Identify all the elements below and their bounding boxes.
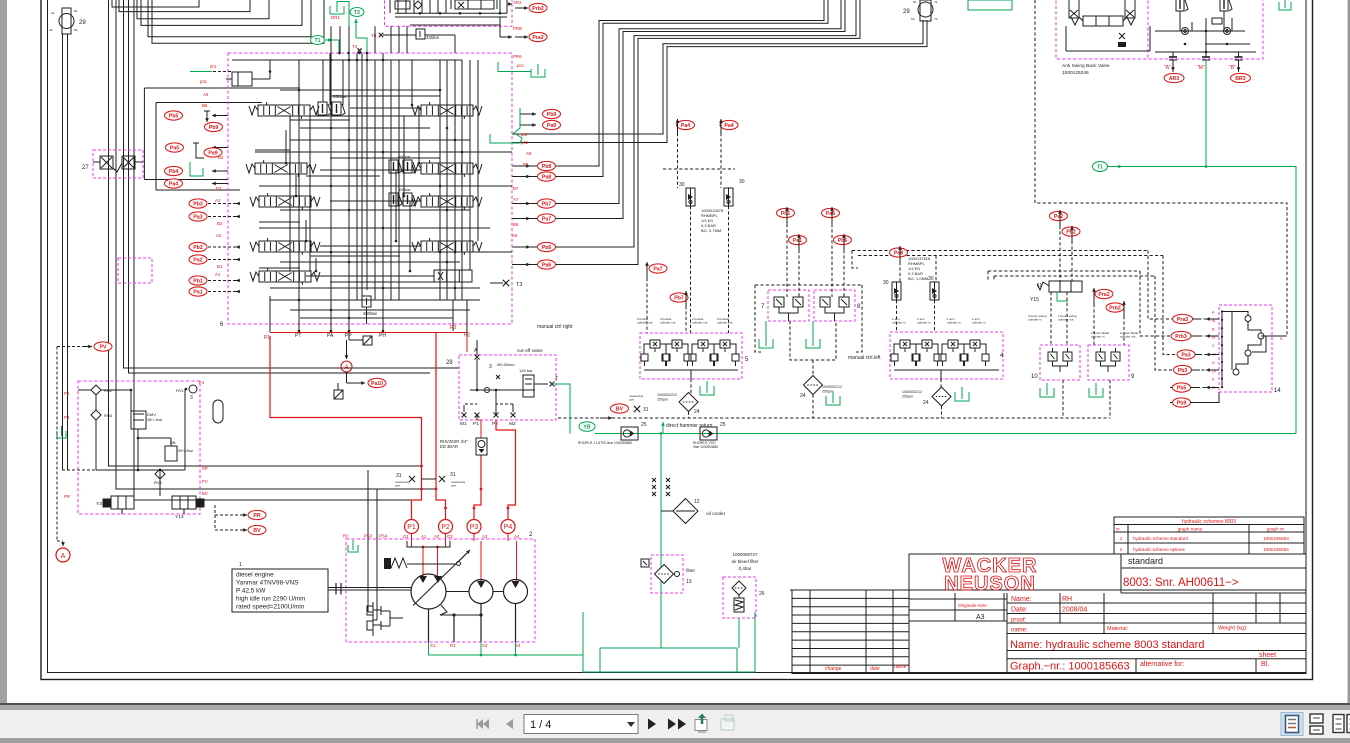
svg-text:PH: PH [379, 333, 386, 339]
svg-text:cylinder in: cylinder in [1091, 335, 1105, 339]
svg-text:Pb2: Pb2 [1066, 229, 1076, 235]
cluster 4 dashed box [890, 332, 1003, 379]
svg-text:AR3: AR3 [1169, 76, 1179, 82]
svg-text:Pa10: Pa10 [371, 381, 383, 387]
svg-text:A5: A5 [203, 92, 209, 97]
anti swing valve internals left [1069, 0, 1079, 18]
title cell standard [1120, 554, 1122, 593]
measuring port 31 mid [634, 406, 640, 412]
return pump 25 left [621, 427, 638, 440]
check marks on cooler line [652, 478, 656, 482]
svg-text:B3: B3 [216, 186, 222, 191]
svg-text:R1: R1 [450, 643, 456, 648]
valves Y3 Y13 [111, 496, 134, 509]
dashed drop cluster5 to filter [690, 379, 692, 393]
pump drain lines [428, 609, 430, 642]
black G1-G2 bracket [407, 541, 450, 547]
svg-text:B7: B7 [513, 186, 519, 191]
tank symbol pilot box [57, 431, 66, 438]
svg-text:300bar: 300bar [363, 311, 378, 316]
toolbar background [0, 703, 1350, 738]
valve V6 block6 right row1 [421, 105, 473, 116]
svg-text:pc2: pc2 [521, 140, 529, 145]
port label Pb7 mid [670, 293, 688, 302]
svg-text:G2: G2 [447, 534, 453, 539]
svg-text:PR6: PR6 [513, 54, 522, 59]
port label Pa2 [189, 255, 207, 264]
dashed drops below checks [690, 206, 692, 333]
port label PV left [94, 342, 112, 351]
port label Prb2 [1106, 303, 1124, 312]
svg-text:D: D [1212, 361, 1215, 365]
svg-text:Originale-Size: Originale-Size [958, 603, 987, 608]
valve DMV [131, 411, 146, 429]
port label Pa5 [166, 143, 184, 152]
svg-text:4a: 4a [51, 11, 55, 15]
valve V2 block6 left row2 [255, 163, 307, 174]
svg-text:P 42,5 kW: P 42,5 kW [236, 588, 266, 595]
svg-text:hydraulic scheme options: hydraulic scheme options [1133, 547, 1186, 552]
svg-text:Pb5: Pb5 [169, 113, 179, 119]
svg-text:Anti Swing Back Valve: Anti Swing Back Valve [1062, 63, 1110, 69]
svg-text:nr.: nr. [1116, 527, 1121, 532]
wire pilot feed lines left [144, 87, 300, 89]
valve V8 block6 right row3 [421, 196, 473, 207]
port label Pa6 mid [822, 208, 840, 217]
svg-text:alternative for:: alternative for: [1140, 661, 1184, 668]
green tank bracket top right corner [1279, 2, 1291, 10]
svg-text:A3: A3 [482, 534, 488, 539]
svg-text:Pa1: Pa1 [193, 289, 202, 295]
dashed drops to cluster tops [755, 285, 761, 352]
svg-text:cylinder in: cylinder in [917, 321, 931, 325]
svg-text:BV: BV [202, 491, 208, 496]
valve cluster 5 units [650, 340, 660, 348]
port label Pb9 [205, 122, 223, 131]
svg-text:standard: standard [1128, 556, 1163, 566]
valve cluster 10 units [1048, 352, 1057, 361]
svg-text:B4: B4 [218, 155, 224, 160]
red wire P3 drop [477, 420, 481, 438]
valve V1 block6 left row1 [258, 105, 310, 116]
tank bracket beside filter [826, 396, 840, 405]
svg-text:Name:: Name: [1011, 596, 1032, 603]
svg-text:A3: A3 [976, 614, 985, 621]
svg-text:Pra2: Pra2 [532, 35, 543, 41]
tank symbol DR1 [330, 6, 344, 14]
svg-text:graph nr.: graph nr. [1267, 527, 1285, 532]
port label Pb4 [165, 166, 183, 175]
port label Pb6 [538, 242, 556, 251]
svg-text:8A: 8A [74, 28, 78, 32]
toolbar first page button (disabled) [477, 719, 489, 729]
port label Pa4 [165, 179, 183, 188]
green wire pcc [531, 69, 545, 77]
pilot pump RHV20SR [476, 438, 487, 455]
anti swing back valve dashed box [1056, 0, 1263, 59]
check RV4 [155, 469, 165, 479]
port label A bottom left [56, 548, 70, 562]
toolbar facing pages view button [1333, 715, 1344, 733]
svg-text:5A: 5A [911, 17, 915, 21]
svg-text:3: 3 [489, 364, 492, 370]
toolbar prev page button (disabled) [506, 719, 513, 729]
svg-text:RH23PLR 1 1/4"ED 4bar 10000638: RH23PLR 1 1/4"ED 4bar 1000063865 [578, 441, 632, 445]
check RN2 [91, 385, 101, 395]
svg-text:345bar: 345bar [426, 35, 440, 40]
dashed drops to cluster 10 [1050, 292, 1052, 345]
valve V9 block6 right row4 [421, 241, 473, 252]
dashed drops clusters 10/9 to return [1062, 380, 1064, 418]
red pump circles P1-P4 [405, 520, 419, 534]
tank brackets below clusters 10/9 [1040, 388, 1054, 397]
green drop to cooler [660, 434, 662, 649]
green tank symbol in pump box [348, 545, 358, 552]
svg-text:A2: A2 [216, 233, 222, 238]
component 27 dashed box [93, 150, 143, 178]
port label Pb9 right [543, 109, 561, 118]
svg-text:28: 28 [446, 360, 453, 366]
svg-text:Pa4: Pa4 [169, 181, 178, 187]
svg-text:250µm: 250µm [657, 398, 668, 402]
port label Pb3 right [1174, 365, 1192, 374]
svg-text:Pb7: Pb7 [542, 201, 552, 207]
main variable pump circle [411, 574, 446, 609]
svg-text:Date:: Date: [1011, 607, 1028, 614]
svg-text:31: 31 [643, 407, 649, 413]
svg-text:14: 14 [1274, 388, 1281, 394]
svg-text:Prb3: Prb3 [1175, 334, 1187, 340]
red wire block6 supply bus [270, 332, 467, 334]
svg-text:29: 29 [79, 20, 86, 26]
green return line direct hammer [595, 433, 1296, 435]
port label BR3 [1231, 73, 1251, 82]
svg-text:A8: A8 [526, 151, 532, 156]
red drops into pumps [411, 534, 413, 542]
port label Pra2 [1095, 289, 1113, 298]
rotary union 29 top-center [920, 0, 931, 21]
svg-text:T1: T1 [1097, 164, 1103, 170]
toolbar next view button (disabled) [721, 719, 734, 730]
svg-text:cylinder out: cylinder out [1120, 335, 1136, 339]
wire bundle staircase to rotary joint 29 top [512, 0, 824, 166]
svg-text:Pra3: Pra3 [1177, 317, 1188, 323]
svg-text:A2: A2 [434, 534, 440, 539]
port label Pb8 [538, 161, 556, 170]
svg-text:Pb1: Pb1 [781, 211, 791, 217]
svg-text:cylinder out: cylinder out [717, 321, 733, 325]
svg-text:25: 25 [720, 422, 726, 428]
block6 junction dots [330, 59, 333, 62]
svg-text:1000185663: 1000185663 [1263, 536, 1289, 541]
port label Pa8 [538, 172, 556, 181]
svg-text:31: 31 [450, 472, 456, 478]
port label Pb2 [189, 242, 207, 251]
svg-text:YB: YB [583, 424, 590, 430]
svg-text:cylinder in: cylinder in [892, 321, 906, 325]
green wire dr2/pc2 zigzag [490, 108, 522, 143]
pilot box vertical stubs from cut top [330, 26, 332, 53]
oil cooler 12 [673, 499, 698, 524]
name row [1006, 593, 1008, 674]
svg-text:S1: S1 [430, 643, 436, 648]
svg-text:1000066727: 1000066727 [732, 552, 758, 557]
svg-text:T3: T3 [516, 282, 522, 288]
svg-text:port: port [629, 398, 634, 402]
svg-text:P1: P1 [407, 524, 416, 531]
svg-text:RV1: RV1 [176, 388, 184, 393]
dashed drop cluster4 to filter [940, 379, 942, 388]
svg-text:name: name [894, 664, 907, 670]
port label Pa1 mid [789, 235, 807, 244]
dashed drops to cluster 9 [1093, 304, 1095, 345]
port label Pb1 [189, 276, 207, 285]
svg-text:P2: P2 [492, 421, 498, 427]
dashed bundle pairs to clusters [852, 250, 1148, 252]
port label Pb3 [189, 199, 207, 208]
regulator spring and solenoid [391, 558, 407, 568]
pilot control dashed box left [78, 381, 200, 514]
dashed lines Pa4 drops [677, 133, 679, 188]
port label Pra3 [1173, 314, 1193, 323]
port label Pa7 mid [649, 264, 667, 273]
svg-text:cylinder out: cylinder out [660, 321, 676, 325]
svg-text:PV: PV [100, 344, 107, 350]
svg-text:M2: M2 [509, 421, 516, 427]
svg-text:dr1: dr1 [210, 64, 217, 69]
red junction dots [420, 465, 423, 468]
svg-text:1: 1 [239, 562, 242, 568]
svg-text:date: date [870, 666, 880, 672]
svg-text:Pb3: Pb3 [193, 201, 203, 207]
component 27 crossover valves [100, 156, 113, 169]
check valve 30 pair B [892, 282, 901, 300]
svg-text:24: 24 [694, 409, 700, 415]
green wire M to T1 [1205, 60, 1207, 167]
port label Pb2 mid [1062, 227, 1080, 236]
block6 bottom port stubs [298, 324, 300, 331]
port label Prb2 top [529, 3, 547, 12]
svg-text:7A: 7A [934, 17, 938, 21]
viewer right shadow [1348, 0, 1350, 703]
svg-text:Pa5: Pa5 [170, 145, 179, 151]
valve V10 block6 right row5 (single) [434, 270, 472, 282]
port label Pb7 [538, 199, 556, 208]
svg-text:Pb8: Pb8 [542, 164, 552, 170]
port label Pb5 right [1173, 383, 1191, 392]
green suction lines to tank [428, 642, 430, 655]
cluster 7 check valves [774, 297, 784, 307]
relief valve 350bar [318, 102, 327, 115]
svg-text:Pb2: Pb2 [193, 245, 203, 251]
svg-text:Prb2: Prb2 [532, 6, 544, 12]
svg-text:PA: PA [327, 333, 334, 339]
port label Pa8 mid [890, 248, 908, 257]
port label Pa10 [368, 378, 386, 387]
svg-text:Y3: Y3 [96, 501, 102, 507]
title block frame [790, 589, 1306, 591]
svg-text:PT: PT [295, 333, 301, 339]
svg-text:PV: PV [202, 479, 208, 484]
valve V5 block6 left row5 [259, 271, 311, 282]
svg-text:port: port [395, 484, 400, 488]
red wire P4 drop [496, 420, 516, 520]
svg-text:BV: BV [616, 406, 624, 412]
filter 24 below cluster 5 [679, 393, 698, 412]
svg-text:graph name: graph name [1178, 527, 1203, 532]
valve block 6 manual ctrl right (dashed box) [228, 53, 512, 324]
dashed return line [558, 417, 1110, 419]
svg-text:manual ctrl.left: manual ctrl.left [848, 355, 881, 361]
svg-text:1 / 4: 1 / 4 [530, 719, 551, 731]
svg-text:A: A [61, 553, 66, 560]
relief valve pair row3 [389, 193, 398, 206]
svg-text:1000185664: 1000185664 [1263, 547, 1289, 552]
svg-text:RV4: RV4 [154, 480, 162, 485]
valve RV1 [189, 385, 197, 393]
svg-text:Pa3: Pa3 [193, 214, 202, 220]
red wire P2 drop [436, 333, 446, 520]
check RN3 [91, 410, 101, 420]
gearbox symbol [372, 602, 374, 636]
component below PP [363, 336, 372, 345]
manifold 14 internals [1221, 312, 1223, 388]
svg-text:A: A [344, 365, 348, 371]
svg-text:25: 25 [641, 422, 647, 428]
green node T2 [350, 8, 364, 17]
svg-text:diesel engine: diesel engine [236, 572, 274, 579]
svg-text:PRB: PRB [513, 26, 522, 31]
svg-text:Pb7: Pb7 [674, 295, 684, 301]
green tank box top right [968, 0, 1012, 10]
svg-text:P1: P1 [473, 421, 479, 427]
anti swing valve internals right [1176, 0, 1184, 11]
svg-text:cylinder in: cylinder in [1028, 318, 1042, 322]
port label BV mid [611, 404, 629, 413]
mid table rows under logo [909, 598, 1007, 600]
dashed wires to PR BV [214, 505, 216, 530]
svg-text:38+/-1bar: 38+/-1bar [147, 418, 163, 422]
svg-text:direct hammer return: direct hammer return [666, 423, 713, 429]
svg-text:Pa7: Pa7 [653, 266, 662, 272]
svg-text:"M": "M" [1197, 65, 1205, 71]
svg-text:13: 13 [686, 579, 692, 585]
filter 24 below clusters 7/8 [804, 376, 823, 395]
return pump 25 right [700, 427, 717, 440]
tank bracket right of filter 24 [955, 392, 969, 401]
svg-text:PR: PR [253, 513, 260, 519]
svg-text:Weight (kg):: Weight (kg): [1218, 626, 1248, 632]
port label PR [248, 510, 266, 519]
svg-text:"B": "B" [1229, 65, 1236, 71]
svg-text:B8: B8 [523, 162, 529, 167]
svg-text:Name: hydraulic scheme 8003: Name: hydraulic scheme 8003 standard [1010, 639, 1204, 651]
port label Pb6 mid [834, 235, 852, 244]
svg-text:"A": "A" [1164, 65, 1171, 71]
valve V7 block6 right row2 [421, 163, 473, 174]
svg-text:Pb6: Pb6 [542, 245, 552, 251]
svg-text:4A: 4A [49, 28, 53, 32]
svg-text:port: port [451, 484, 456, 488]
toolbar continuous view button [1310, 714, 1323, 723]
svg-text:PS4: PS4 [379, 534, 388, 539]
svg-text:Prb2: Prb2 [1109, 305, 1121, 311]
svg-text:pcc: pcc [517, 63, 525, 68]
svg-text:B6: B6 [513, 222, 519, 227]
dashed collector 7/8 to filter 24 [790, 321, 836, 360]
component A node mid [341, 361, 352, 372]
port label Pa4 drop1 [677, 120, 695, 129]
green wire T1 drop [325, 39, 332, 41]
valve cluster 4 units [900, 340, 910, 348]
valve DB [165, 446, 177, 461]
svg-text:2: 2 [1120, 547, 1123, 552]
port label Pa1 [189, 287, 207, 296]
port label AR3 [1164, 73, 1184, 82]
svg-text:A4: A4 [514, 534, 520, 539]
svg-text:sheet: sheet [1259, 652, 1276, 659]
svg-text:2bar 1000063865: 2bar 1000063865 [693, 445, 718, 449]
svg-text:1000002212: 1000002212 [822, 385, 842, 389]
svg-text:250µm: 250µm [902, 395, 913, 399]
svg-text:P4: P4 [504, 524, 513, 531]
svg-text:B2: B2 [217, 221, 223, 226]
port label Pa6 [538, 260, 556, 269]
svg-text:Pa4: Pa4 [724, 123, 733, 129]
svg-text:C: C [1212, 344, 1215, 348]
pilot box internal wires [78, 389, 91, 391]
svg-text:Pb1: Pb1 [193, 278, 203, 284]
svg-text:M1: M1 [460, 421, 467, 427]
svg-text:1000002212: 1000002212 [657, 393, 677, 397]
port label Pa7 [538, 214, 556, 223]
svg-text:8a: 8a [74, 9, 78, 13]
valve V3 block6 left row3 [259, 196, 311, 207]
svg-text:P3: P3 [450, 325, 456, 331]
svg-text:Pa4: Pa4 [681, 123, 690, 129]
cluster 8 check valves [820, 297, 830, 307]
green wire T2 drop [355, 19, 357, 38]
green drop air bleed to tank [738, 618, 740, 648]
port label Prb3 [1171, 331, 1191, 340]
toolbar next page button [648, 719, 656, 730]
svg-text:cylinder in: cylinder in [947, 321, 961, 325]
svg-text:DR1: DR1 [331, 15, 340, 20]
relief valve 345bar [416, 29, 425, 39]
green stub Y15 [1057, 292, 1068, 301]
green node T1 top [311, 36, 325, 45]
cluster 5 dashed box [640, 333, 742, 379]
air bleed filter 26 [732, 581, 746, 595]
check valve 30 pair A [686, 188, 695, 206]
svg-text:Pb9: Pb9 [1177, 400, 1187, 406]
svg-text:P2: P2 [64, 391, 70, 396]
svg-text:Pa8: Pa8 [894, 250, 903, 256]
svg-text:Pb9: Pb9 [547, 112, 557, 118]
svg-text:Pb4: Pb4 [169, 169, 179, 175]
port label BV left [248, 525, 266, 534]
tank brackets below clusters 7/8 [759, 339, 773, 348]
anti swing ports A M B [1169, 56, 1177, 58]
svg-text:high idle run 2290 U/min: high idle run 2290 U/min [236, 596, 306, 603]
svg-text:Pb3: Pb3 [1178, 368, 1188, 374]
measuring ports 31 bottom [409, 476, 415, 482]
svg-text:Pa8: Pa8 [542, 174, 551, 180]
svg-text:P4: P4 [64, 415, 70, 420]
tank bracket below cluster 5 [700, 386, 714, 395]
green wire cutoff T to return [554, 384, 570, 434]
filter 24 below cluster 4 [932, 387, 951, 406]
